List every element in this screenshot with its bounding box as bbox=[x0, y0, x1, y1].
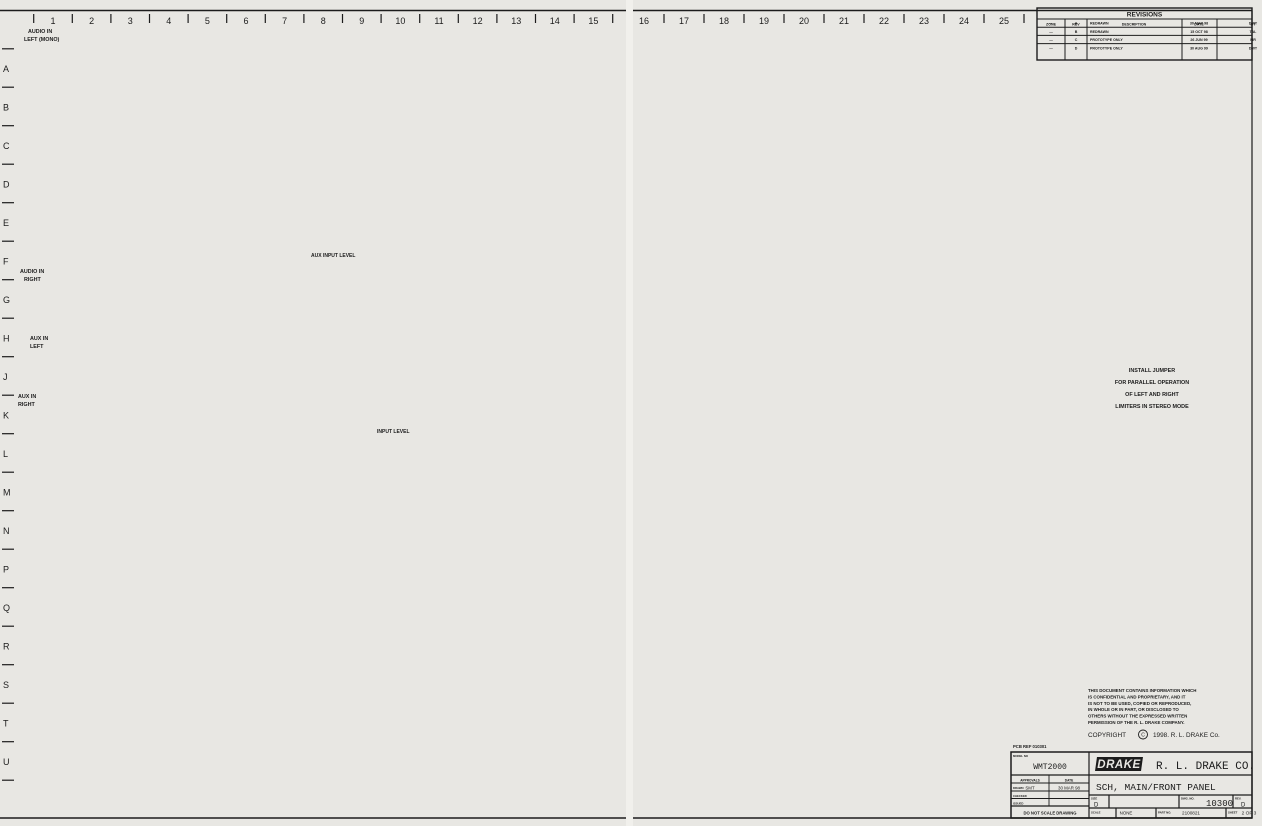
svg-text:18: 18 bbox=[719, 16, 729, 26]
grid tick bbox=[380, 14, 382, 23]
svg-text:14: 14 bbox=[550, 16, 560, 26]
left page top border bbox=[0, 10, 626, 12]
svg-text:AUX IN: AUX IN bbox=[30, 336, 48, 342]
page gap bbox=[626, 0, 633, 826]
right page bottom border bbox=[633, 817, 1252, 819]
svg-text:SMT: SMT bbox=[1025, 786, 1035, 791]
svg-text:LEFT: LEFT bbox=[30, 344, 44, 350]
svg-text:IN WHOLE OR IN PART, OR DISCLO: IN WHOLE OR IN PART, OR DISCLOSED TO bbox=[1088, 707, 1179, 712]
svg-text:C: C bbox=[1075, 38, 1078, 42]
grid tick bbox=[2, 625, 14, 627]
svg-text:B: B bbox=[3, 103, 9, 113]
svg-text:26 JUN 99: 26 JUN 99 bbox=[1190, 38, 1207, 42]
revisions table bbox=[1037, 8, 1252, 60]
svg-text:7: 7 bbox=[282, 16, 287, 26]
svg-text:T: T bbox=[3, 719, 9, 729]
grid tick bbox=[2, 125, 14, 127]
svg-text:REDRAWN: REDRAWN bbox=[1090, 22, 1109, 26]
left page bottom border bbox=[0, 817, 626, 819]
svg-text:30 MAR 98: 30 MAR 98 bbox=[1190, 22, 1208, 26]
svg-text:MR: MR bbox=[1250, 38, 1256, 42]
svg-text:R: R bbox=[3, 642, 10, 652]
grid tick bbox=[1023, 14, 1025, 23]
grid tick bbox=[903, 14, 905, 23]
grid tick bbox=[612, 14, 614, 23]
svg-text:—: — bbox=[1049, 46, 1053, 50]
svg-text:21: 21 bbox=[839, 16, 849, 26]
grid tick bbox=[2, 779, 14, 781]
grid tick bbox=[2, 48, 14, 50]
grid tick bbox=[2, 163, 14, 165]
svg-text:11: 11 bbox=[434, 16, 443, 26]
title block bbox=[1011, 752, 1252, 818]
svg-text:DATE: DATE bbox=[1065, 779, 1073, 783]
svg-text:R. L. DRAKE CO.: R. L. DRAKE CO. bbox=[1156, 761, 1255, 773]
svg-text:SHEET: SHEET bbox=[1228, 811, 1238, 815]
svg-text:19: 19 bbox=[759, 16, 769, 26]
svg-text:APPROVALS: APPROVALS bbox=[1020, 779, 1040, 783]
grid tick bbox=[743, 14, 745, 23]
svg-text:SCALE: SCALE bbox=[1091, 811, 1101, 815]
svg-text:D: D bbox=[3, 180, 10, 190]
svg-text:25: 25 bbox=[999, 16, 1009, 26]
grid tick bbox=[983, 14, 985, 23]
svg-text:DRAKE: DRAKE bbox=[1097, 759, 1140, 771]
grid tick bbox=[943, 14, 945, 23]
svg-text:FOR PARALLEL OPERATION: FOR PARALLEL OPERATION bbox=[1115, 380, 1189, 386]
grid tick bbox=[2, 702, 14, 704]
svg-text:U: U bbox=[3, 757, 10, 767]
grid tick bbox=[2, 433, 14, 435]
grid tick bbox=[2, 394, 14, 396]
svg-text:PART NO.: PART NO. bbox=[1158, 811, 1171, 815]
svg-text:30 AUG 99: 30 AUG 99 bbox=[1190, 46, 1208, 50]
svg-text:15: 15 bbox=[588, 16, 598, 26]
svg-text:M: M bbox=[3, 488, 11, 498]
grid tick bbox=[2, 664, 14, 666]
svg-text:OTHERS WITHOUT THE EXPRESSED W: OTHERS WITHOUT THE EXPRESSED WRITTEN bbox=[1088, 714, 1187, 719]
svg-text:23: 23 bbox=[919, 16, 929, 26]
grid tick bbox=[2, 471, 14, 473]
grid tick bbox=[2, 741, 14, 743]
svg-text:B: B bbox=[1075, 30, 1078, 34]
grid tick bbox=[71, 14, 73, 23]
svg-text:DRAWN: DRAWN bbox=[1013, 786, 1024, 790]
svg-text:2: 2 bbox=[89, 16, 94, 26]
svg-text:22: 22 bbox=[879, 16, 889, 26]
svg-text:PERMISSION OF THE R. L. DRAKE: PERMISSION OF THE R. L. DRAKE COMPANY. bbox=[1088, 720, 1185, 725]
grid tick bbox=[33, 14, 35, 23]
grid tick bbox=[2, 548, 14, 550]
svg-text:3: 3 bbox=[128, 16, 133, 26]
svg-text:Q: Q bbox=[3, 603, 10, 613]
svg-text:IS CONFIDENTIAL AND PROPRIETAR: IS CONFIDENTIAL AND PROPRIETARY, AND IT bbox=[1088, 694, 1186, 699]
svg-text:G: G bbox=[3, 295, 10, 305]
grid tick bbox=[2, 587, 14, 589]
grid tick bbox=[573, 14, 575, 23]
svg-text:1998. R. L. DRAKE Co.: 1998. R. L. DRAKE Co. bbox=[1153, 732, 1220, 739]
svg-text:PCB REF 010301: PCB REF 010301 bbox=[1013, 744, 1047, 749]
grid tick bbox=[535, 14, 537, 23]
svg-text:5: 5 bbox=[205, 16, 210, 26]
svg-text:REVISIONS: REVISIONS bbox=[1127, 12, 1163, 19]
svg-text:K: K bbox=[3, 411, 9, 421]
svg-text:24: 24 bbox=[959, 16, 969, 26]
svg-text:P: P bbox=[3, 565, 9, 575]
grid tick bbox=[226, 14, 228, 23]
grid tick bbox=[863, 14, 865, 23]
svg-text:17: 17 bbox=[679, 16, 689, 26]
grid tick bbox=[419, 14, 421, 23]
svg-text:2 OF 3: 2 OF 3 bbox=[1242, 811, 1257, 817]
DRAKE logo bbox=[1095, 757, 1143, 771]
svg-text:PROTOTYPE ONLY: PROTOTYPE ONLY bbox=[1090, 46, 1123, 50]
svg-text:F: F bbox=[3, 257, 9, 267]
svg-text:NONE: NONE bbox=[1120, 811, 1133, 816]
svg-text:LIMITERS IN STEREO MODE: LIMITERS IN STEREO MODE bbox=[1115, 404, 1189, 410]
svg-text:AUX IN: AUX IN bbox=[18, 394, 36, 400]
svg-text:ISSUED: ISSUED bbox=[1013, 802, 1023, 806]
svg-text:C: C bbox=[3, 141, 10, 151]
svg-text:13: 13 bbox=[511, 16, 521, 26]
svg-text:DESCRIPTION: DESCRIPTION bbox=[1122, 23, 1147, 27]
svg-text:20: 20 bbox=[799, 16, 809, 26]
svg-text:C: C bbox=[1141, 733, 1145, 739]
grid tick bbox=[187, 14, 189, 23]
svg-text:8: 8 bbox=[321, 16, 326, 26]
grid tick bbox=[2, 202, 14, 204]
grid tick bbox=[2, 317, 14, 319]
grid tick bbox=[703, 14, 705, 23]
svg-text:THIS DOCUMENT CONTAINS INFORMA: THIS DOCUMENT CONTAINS INFORMATION WHICH bbox=[1088, 688, 1196, 693]
svg-text:1: 1 bbox=[50, 16, 55, 26]
svg-text:12: 12 bbox=[473, 16, 483, 26]
svg-text:REDRAWN: REDRAWN bbox=[1090, 30, 1109, 34]
svg-text:N: N bbox=[3, 526, 10, 536]
svg-text:WMT2000: WMT2000 bbox=[1033, 763, 1067, 772]
svg-text:10: 10 bbox=[395, 16, 405, 26]
svg-text:AUDIO IN: AUDIO IN bbox=[28, 29, 52, 35]
svg-text:J: J bbox=[3, 372, 8, 382]
grid tick bbox=[149, 14, 151, 23]
grid tick bbox=[303, 14, 305, 23]
grid tick bbox=[663, 14, 665, 23]
svg-text:INSTALL JUMPER: INSTALL JUMPER bbox=[1129, 368, 1175, 374]
svg-text:RIGHT: RIGHT bbox=[24, 277, 41, 283]
svg-text:L: L bbox=[3, 449, 8, 459]
svg-text:DO NOT SCALE DRAWING: DO NOT SCALE DRAWING bbox=[1023, 811, 1076, 816]
svg-text:—: — bbox=[1049, 30, 1053, 34]
svg-text:SCH, MAIN/FRONT PANEL: SCH, MAIN/FRONT PANEL bbox=[1096, 782, 1216, 793]
svg-text:D: D bbox=[1075, 46, 1078, 50]
copyright symbol bbox=[1139, 730, 1148, 739]
svg-text:S: S bbox=[3, 680, 9, 690]
grid tick bbox=[2, 86, 14, 88]
svg-text:—: — bbox=[1049, 22, 1053, 26]
svg-text:MODEL NO: MODEL NO bbox=[1013, 754, 1029, 758]
svg-text:30 MAR 98: 30 MAR 98 bbox=[1058, 786, 1081, 791]
svg-text:D: D bbox=[1094, 803, 1099, 809]
right page top border bbox=[633, 10, 1252, 12]
grid tick bbox=[342, 14, 344, 23]
grid tick bbox=[2, 279, 14, 281]
right page right border bbox=[1251, 11, 1253, 819]
svg-text:DWG. NO.: DWG. NO. bbox=[1181, 797, 1195, 801]
svg-text:AUDIO IN: AUDIO IN bbox=[20, 269, 44, 275]
grid tick bbox=[2, 240, 14, 242]
grid tick bbox=[2, 510, 14, 512]
svg-text:15 OCT 98: 15 OCT 98 bbox=[1190, 30, 1208, 34]
svg-text:CHECKED: CHECKED bbox=[1013, 794, 1027, 798]
svg-text:LEFT (MONO): LEFT (MONO) bbox=[24, 37, 60, 43]
svg-text:10300: 10300 bbox=[1206, 799, 1233, 809]
grid tick bbox=[457, 14, 459, 23]
svg-text:IS NOT TO BE USED, COPIED OR R: IS NOT TO BE USED, COPIED OR REPRODUCED, bbox=[1088, 701, 1191, 706]
svg-text:6: 6 bbox=[243, 16, 248, 26]
svg-text:9: 9 bbox=[359, 16, 364, 26]
svg-text:16: 16 bbox=[639, 16, 649, 26]
svg-text:OF LEFT AND RIGHT: OF LEFT AND RIGHT bbox=[1125, 392, 1179, 398]
svg-text:TAL: TAL bbox=[1250, 30, 1258, 34]
grid tick bbox=[110, 14, 112, 23]
svg-text:COPYRIGHT: COPYRIGHT bbox=[1088, 732, 1126, 739]
grid tick bbox=[783, 14, 785, 23]
svg-text:H: H bbox=[3, 334, 10, 344]
svg-text:2100821: 2100821 bbox=[1182, 811, 1200, 816]
grid tick bbox=[2, 356, 14, 358]
svg-text:INPUT LEVEL: INPUT LEVEL bbox=[377, 429, 410, 435]
svg-text:A: A bbox=[1075, 22, 1078, 26]
svg-text:E: E bbox=[3, 218, 9, 228]
svg-text:A: A bbox=[3, 64, 9, 74]
svg-text:4: 4 bbox=[166, 16, 171, 26]
svg-text:RIGHT: RIGHT bbox=[18, 402, 35, 408]
svg-text:DWT: DWT bbox=[1249, 46, 1258, 50]
svg-text:D: D bbox=[1241, 803, 1246, 809]
grid tick bbox=[823, 14, 825, 23]
grid tick bbox=[496, 14, 498, 23]
grid tick bbox=[264, 14, 266, 23]
svg-text:SIZE: SIZE bbox=[1091, 797, 1097, 801]
svg-text:AUX INPUT LEVEL: AUX INPUT LEVEL bbox=[311, 253, 355, 259]
svg-text:REV.: REV. bbox=[1235, 797, 1241, 801]
svg-text:PROTOTYPE ONLY: PROTOTYPE ONLY bbox=[1090, 38, 1123, 42]
svg-text:—: — bbox=[1049, 38, 1053, 42]
svg-text:DWT: DWT bbox=[1249, 22, 1258, 26]
